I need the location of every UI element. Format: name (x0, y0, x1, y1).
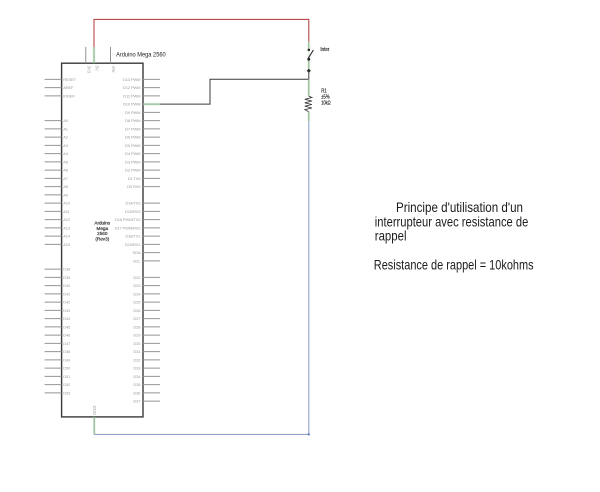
U1 right pin D13 PWM (123, 77, 160, 82)
U1 left pin A6 (45, 168, 69, 173)
U1 right pin D35 (133, 382, 160, 387)
U1 right pin D15/RX3 (125, 209, 160, 214)
svg-text:SDA: SDA (133, 250, 141, 255)
svg-text:D15/RX3: D15/RX3 (125, 209, 141, 214)
svg-text:D10 PWM: D10 PWM (123, 102, 140, 107)
svg-text:D47: D47 (63, 341, 71, 346)
U1 left pin A2 (45, 135, 69, 140)
svg-text:D52: D52 (63, 382, 71, 387)
wire: switch to D10 net (308, 71, 310, 80)
resistor R1 bottom lead (307, 112, 310, 121)
svg-text:3V3: 3V3 (86, 66, 91, 74)
svg-text:D48: D48 (63, 349, 71, 354)
U1 left pin A8 (45, 184, 69, 189)
U1 bottom pin GND (92, 406, 97, 435)
svg-text:D16 PWM/TX2: D16 PWM/TX2 (115, 217, 141, 222)
svg-text:GND: GND (92, 406, 97, 415)
svg-text:D46: D46 (63, 333, 71, 338)
svg-text:D49: D49 (63, 357, 71, 362)
U1 left pin D50 (45, 366, 71, 371)
svg-text:D27: D27 (133, 316, 141, 321)
svg-text:D14/TX3: D14/TX3 (125, 201, 141, 206)
svg-text:D6 PWM: D6 PWM (125, 135, 140, 140)
svg-text:rappel: rappel (375, 228, 407, 243)
U1 right pin D22 (133, 275, 160, 280)
svg-text:D37: D37 (133, 399, 141, 404)
svg-text:10kΩ: 10kΩ (321, 100, 331, 106)
blue wire corner endpoint dot (308, 433, 310, 435)
svg-text:D26: D26 (133, 308, 141, 313)
U1 left pin A0 (45, 118, 69, 123)
U1 right pin D31 (133, 349, 160, 354)
svg-text:5V: 5V (95, 66, 100, 71)
U1 right pin D9 PWM (125, 110, 160, 115)
U1 left pin RESET (45, 77, 77, 82)
wire: D10 pin to resistor node (160, 79, 309, 104)
U1 right pin D24 (133, 291, 160, 296)
junction node below switch (307, 69, 311, 73)
resistor R1 value label (321, 88, 331, 106)
svg-text:D13 PWM: D13 PWM (123, 77, 140, 82)
svg-text:D28: D28 (133, 324, 141, 329)
U1 left pin A10 (45, 201, 71, 206)
U1 left pin D41 (45, 291, 71, 296)
switch S1 Inter (307, 42, 313, 71)
svg-text:D11 PWM: D11 PWM (123, 94, 140, 99)
svg-text:D24: D24 (133, 291, 141, 296)
U1 right pin D17 PWM/RX2 (115, 226, 160, 231)
svg-text:Resistance de rappel = 10kohms: Resistance de rappel = 10kohms (374, 257, 534, 272)
U1 left pin A11 (45, 209, 71, 214)
svg-text:D38: D38 (63, 267, 71, 272)
svg-text:D0 RX0: D0 RX0 (127, 184, 141, 189)
svg-text:D31: D31 (133, 349, 141, 354)
svg-text:IOREF: IOREF (63, 94, 75, 99)
svg-text:D22: D22 (133, 275, 141, 280)
U1 left pin A13 (45, 226, 71, 231)
svg-text:D17 PWM/RX2: D17 PWM/RX2 (115, 226, 142, 231)
U1 right pin D25 (133, 300, 160, 305)
U1 left pin D43 (45, 308, 71, 313)
U1 right pin D32 (133, 357, 160, 362)
U1 left pin D52 (45, 382, 71, 387)
U1 left pin A5 (45, 160, 69, 165)
svg-text:SCL: SCL (133, 258, 141, 263)
U1 left pin A3 (45, 143, 69, 148)
U1 right pin D34 (133, 374, 160, 379)
svg-text:D2 PWM: D2 PWM (125, 168, 140, 173)
svg-text:Arduino Mega 2560: Arduino Mega 2560 (116, 51, 166, 58)
U1 left pin D38 (45, 267, 71, 272)
svg-text:A13: A13 (63, 226, 71, 231)
resistor R1 top lead (307, 79, 310, 96)
U1 left pin D42 (45, 300, 71, 305)
U1 right pin D28 (133, 324, 160, 329)
Arduino Mega 2560 U1 body (62, 63, 143, 417)
svg-text:D44: D44 (63, 316, 71, 321)
svg-text:D53: D53 (63, 390, 71, 395)
svg-text:D25: D25 (133, 300, 141, 305)
U1 right pin SCL (133, 258, 160, 263)
U1 right pin D19/RX1 (125, 242, 160, 247)
svg-text:D7 PWM: D7 PWM (125, 127, 140, 132)
U1 left pin D49 (45, 357, 71, 362)
svg-text:D36: D36 (133, 390, 141, 395)
U1 left pin A1 (45, 127, 69, 132)
svg-text:D19/RX1: D19/RX1 (125, 242, 141, 247)
U1 right pin D14/TX3 (125, 201, 160, 206)
U1 left pin D46 (45, 333, 71, 338)
svg-text:D39: D39 (63, 275, 71, 280)
svg-text:D40: D40 (63, 283, 71, 288)
U1 left pin A15 (45, 242, 71, 247)
svg-text:D12 PWM: D12 PWM (123, 85, 140, 90)
U1 left pin D48 (45, 349, 71, 354)
U1 title label Arduino Mega 2560 (116, 51, 166, 58)
U1 top pin 5V (94, 47, 100, 71)
U1 right pin SDA (133, 250, 160, 255)
svg-text:A11: A11 (63, 209, 70, 214)
U1 right pin D11 PWM (123, 94, 160, 99)
svg-text:D9 PWM: D9 PWM (125, 110, 140, 115)
svg-text:AREF: AREF (63, 85, 74, 90)
U1 right pin D5 PWM (125, 143, 160, 148)
U1 left pin D47 (45, 341, 71, 346)
svg-text:D32: D32 (133, 357, 141, 362)
svg-text:D3 PWM: D3 PWM (125, 160, 140, 165)
U1 left pin AREF (45, 85, 74, 90)
U1 right pin D23 (133, 283, 160, 288)
U1 right pin D3 PWM (125, 160, 160, 165)
U1 left pin D39 (45, 275, 71, 280)
U1 right pin D18/TX1 (125, 234, 160, 239)
U1 left pin D53 (45, 390, 71, 395)
U1 right pin D36 (133, 390, 160, 395)
U1 left pin IOREF (45, 94, 76, 99)
svg-text:D1 TX0: D1 TX0 (128, 176, 142, 181)
U1 left pin D44 (45, 316, 71, 321)
svg-text:D41: D41 (63, 291, 71, 296)
svg-text:RESET: RESET (63, 77, 76, 82)
svg-text:VIN: VIN (111, 66, 116, 73)
U1 right pin D2 PWM (125, 168, 160, 173)
U1 right pin D30 (133, 341, 160, 346)
U1 right pin D27 (133, 316, 160, 321)
U1 left pin A7 (45, 176, 69, 181)
U1 right pin D7 PWM (125, 127, 160, 132)
wire 5V red: from U1 5V pin up, across top, down to switch S1 (94, 19, 309, 47)
svg-text:D30: D30 (133, 341, 141, 346)
U1 right pin D29 (133, 333, 160, 338)
svg-text:D35: D35 (133, 382, 141, 387)
svg-text:A15: A15 (63, 242, 71, 247)
svg-text:D4 PWM: D4 PWM (125, 151, 140, 156)
svg-text:D51: D51 (63, 374, 71, 379)
U1 top pin VIN (111, 47, 117, 73)
wire GND blue: resistor bottom down and across to U1 GND (94, 121, 309, 434)
U1 right pin D10 PWM (123, 102, 160, 107)
svg-text:D33: D33 (133, 366, 141, 371)
U1 center label (94, 221, 110, 242)
U1 right pin D6 PWM (125, 135, 160, 140)
U1 left pin A9 (45, 193, 69, 198)
svg-text:D8 PWM: D8 PWM (125, 118, 140, 123)
U1 right pin D37 (133, 399, 160, 404)
svg-text:(Rev3): (Rev3) (95, 236, 109, 241)
U1 left pin A14 (45, 234, 71, 239)
U1 right pin D26 (133, 308, 160, 313)
U1 right pin D0 RX0 (127, 184, 160, 189)
resistor R1 zigzag (305, 96, 312, 112)
svg-text:Principe d'utilisation d'un: Principe d'utilisation d'un (396, 200, 523, 215)
svg-text:Inter: Inter (320, 47, 329, 53)
svg-text:D29: D29 (133, 333, 141, 338)
annotation text block (374, 200, 534, 272)
U1 left pin A12 (45, 217, 71, 222)
U1 right pin D12 PWM (123, 85, 160, 90)
svg-text:A10: A10 (63, 201, 71, 206)
svg-text:D50: D50 (63, 366, 71, 371)
switch S1 label Inter (320, 47, 329, 53)
svg-text:D45: D45 (63, 324, 71, 329)
U1 left pin A4 (45, 151, 69, 156)
U1 top pin 3V3 (86, 47, 92, 74)
U1 right pin D1 TX0 (128, 176, 160, 181)
U1 left pin D51 (45, 374, 71, 379)
U1 left pin D45 (45, 324, 71, 329)
U1 right pin D4 PWM (125, 151, 160, 156)
svg-text:D34: D34 (133, 374, 141, 379)
U1 right pin D33 (133, 366, 160, 371)
svg-text:D43: D43 (63, 308, 71, 313)
U1 left pin D40 (45, 283, 71, 288)
svg-text:D23: D23 (133, 283, 141, 288)
U1 right pin D16 PWM/TX2 (115, 217, 160, 222)
svg-text:interrupteur avec resistance d: interrupteur avec resistance de (375, 214, 529, 229)
svg-text:A14: A14 (63, 234, 71, 239)
svg-text:D18/TX1: D18/TX1 (125, 234, 141, 239)
svg-text:D5 PWM: D5 PWM (125, 143, 140, 148)
U1 right pin D8 PWM (125, 118, 160, 123)
svg-text:D42: D42 (63, 300, 71, 305)
svg-text:A12: A12 (63, 217, 71, 222)
